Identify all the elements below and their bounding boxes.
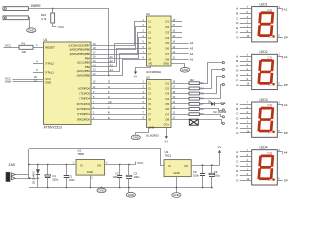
svg-text:DP: DP [269, 180, 273, 182]
svg-text:LED3: LED3 [260, 98, 268, 102]
svg-text:A: A [108, 95, 110, 99]
svg-text:DP: DP [269, 133, 273, 135]
svg-text:100n: 100n [193, 173, 199, 177]
svg-text:(TXD)PD1: (TXD)PD1 [77, 112, 90, 116]
svg-text:ZAS: ZAS [9, 163, 16, 167]
svg-text:DP: DP [284, 83, 288, 87]
svg-text:C: C [236, 159, 238, 163]
svg-text:U1: U1 [44, 38, 48, 42]
svg-text:GND: GND [28, 28, 34, 32]
svg-text:(RXD)PD0: (RXD)PD0 [77, 117, 91, 121]
svg-text:(T0)PD4: (T0)PD4 [79, 97, 90, 101]
svg-text:LED4: LED4 [260, 146, 268, 150]
svg-text:DP: DP [269, 85, 273, 87]
svg-text:O1: O1 [165, 81, 169, 85]
svg-text:(INT1)PD3: (INT1)PD3 [77, 102, 91, 106]
svg-text:A: A [236, 54, 238, 58]
svg-text:G: G [108, 85, 110, 89]
svg-text:A: A [236, 102, 238, 106]
svg-text:O3: O3 [165, 30, 169, 34]
svg-text:D: D [236, 164, 238, 168]
svg-text:O2: O2 [165, 87, 169, 91]
svg-text:C1: C1 [69, 175, 73, 179]
svg-text:C9: C9 [214, 170, 218, 174]
svg-text:A1: A1 [284, 7, 288, 11]
svg-text:10k: 10k [22, 50, 27, 54]
svg-text:E: E [236, 169, 238, 173]
svg-text:LED2: LED2 [260, 50, 268, 54]
svg-text:A2: A2 [284, 55, 288, 59]
svg-text:GND: GND [5, 80, 11, 84]
svg-text:ULN2803: ULN2803 [146, 133, 159, 137]
svg-text:VCC: VCC [137, 161, 144, 165]
svg-text:A4: A4 [190, 41, 194, 45]
svg-text:F: F [236, 126, 238, 130]
svg-text:RESET: RESET [45, 45, 55, 49]
svg-text:GND: GND [45, 80, 51, 84]
svg-text:GND: GND [98, 189, 104, 193]
svg-text:A2: A2 [110, 59, 114, 63]
svg-text:CO+: CO+ [164, 122, 170, 126]
svg-text:DP: DP [108, 100, 112, 104]
svg-text:D1 1N4007: D1 1N4007 [31, 170, 35, 184]
svg-text:E: E [108, 116, 110, 120]
svg-text:(AIN0)PB0: (AIN0)PB0 [77, 74, 91, 78]
svg-text:XTAL1: XTAL1 [45, 70, 54, 74]
svg-text:VCC: VCC [58, 25, 65, 29]
svg-text:B: B [236, 155, 238, 159]
svg-text:VI: VI [80, 163, 83, 167]
svg-text:A1: A1 [110, 55, 114, 59]
svg-text:100u: 100u [134, 175, 140, 179]
svg-text:R1: R1 [22, 42, 26, 46]
svg-text:DP: DP [269, 37, 273, 39]
svg-text:D: D [108, 80, 110, 84]
svg-text:C8: C8 [193, 170, 197, 174]
svg-text:C: C [108, 106, 110, 110]
svg-text:DP: DP [284, 36, 288, 40]
svg-text:U4: U4 [146, 12, 150, 16]
svg-text:VI: VI [168, 164, 171, 168]
svg-text:A3: A3 [284, 103, 288, 107]
svg-text:GND: GND [128, 193, 134, 197]
svg-text:A3: A3 [190, 47, 194, 51]
svg-text:A4: A4 [284, 151, 288, 155]
svg-text:4,7k: 4,7k [41, 17, 47, 21]
svg-text:E: E [236, 26, 238, 30]
svg-text:E: E [236, 74, 238, 78]
svg-text:C2: C2 [115, 172, 119, 176]
svg-text:C4: C4 [52, 174, 56, 178]
svg-text:GND: GND [182, 68, 188, 72]
svg-text:A1: A1 [190, 57, 194, 61]
svg-text:A: A [236, 7, 238, 11]
svg-text:O3: O3 [165, 92, 169, 96]
svg-text:DP: DP [284, 131, 288, 135]
svg-text:GND: GND [149, 126, 155, 130]
svg-text:O4: O4 [165, 36, 169, 40]
svg-text:V+: V+ [134, 75, 138, 79]
svg-text:A2: A2 [190, 52, 194, 56]
svg-text:B: B [236, 107, 238, 111]
svg-text:A: A [236, 150, 238, 154]
svg-text:R2: R2 [190, 78, 194, 82]
svg-text:B: B [108, 111, 110, 115]
svg-text:O2: O2 [165, 25, 169, 29]
svg-text:E: E [236, 121, 238, 125]
svg-text:B: B [236, 59, 238, 63]
svg-text:F: F [236, 174, 238, 178]
svg-text:XTAL2: XTAL2 [45, 62, 54, 66]
svg-text:A4: A4 [110, 68, 114, 72]
svg-text:A3: A3 [110, 64, 114, 68]
svg-text:O8: O8 [165, 57, 169, 61]
svg-text:GND: GND [87, 170, 93, 174]
svg-text:C3: C3 [134, 172, 138, 176]
svg-text:D2 1N4148: D2 1N4148 [214, 111, 227, 114]
svg-text:O6: O6 [165, 47, 169, 51]
svg-text:(ICP)PD6: (ICP)PD6 [78, 86, 90, 90]
svg-text:100n: 100n [69, 178, 75, 182]
svg-text:V+: V+ [218, 145, 222, 149]
svg-text:O7: O7 [165, 112, 169, 116]
svg-text:220u: 220u [52, 177, 58, 181]
svg-text:O6: O6 [165, 107, 169, 111]
svg-text:DP: DP [284, 179, 288, 183]
svg-text:VE: VE [149, 62, 153, 66]
svg-text:O1: O1 [165, 20, 169, 24]
svg-text:(INT0)PD2: (INT0)PD2 [77, 107, 91, 111]
svg-text:1WIRE: 1WIRE [31, 4, 41, 8]
svg-text:V+: V+ [164, 139, 168, 143]
svg-text:7812: 7812 [165, 154, 172, 158]
svg-text:100n: 100n [113, 175, 119, 179]
svg-text:C: C [236, 16, 238, 20]
svg-text:GND: GND [174, 171, 180, 175]
svg-text:D: D [236, 69, 238, 73]
svg-text:O8: O8 [165, 118, 169, 122]
svg-text:D: D [236, 21, 238, 25]
svg-text:7805: 7805 [77, 152, 84, 156]
svg-text:(T1)PD5: (T1)PD5 [79, 92, 90, 96]
svg-text:GND: GND [173, 193, 179, 197]
svg-text:O5: O5 [165, 41, 169, 45]
svg-text:VCC: VCC [5, 43, 12, 47]
svg-text:C: C [236, 112, 238, 116]
svg-text:O5: O5 [165, 102, 169, 106]
svg-text:U5: U5 [146, 75, 150, 79]
svg-text:F: F [236, 78, 238, 82]
svg-text:O7: O7 [165, 52, 169, 56]
svg-text:ATTINY2313: ATTINY2313 [44, 126, 62, 130]
svg-text:D: D [236, 116, 238, 120]
svg-text:C: C [236, 64, 238, 68]
svg-text:GND: GND [163, 62, 169, 66]
svg-text:GND: GND [133, 136, 139, 140]
svg-text:B: B [236, 11, 238, 15]
svg-text:R8: R8 [200, 107, 204, 111]
svg-text:LED1: LED1 [260, 2, 268, 6]
svg-text:100u: 100u [214, 173, 220, 177]
svg-text:F: F [236, 31, 238, 35]
svg-text:UCN2803A: UCN2803A [146, 70, 161, 74]
svg-text:O4: O4 [165, 97, 169, 101]
